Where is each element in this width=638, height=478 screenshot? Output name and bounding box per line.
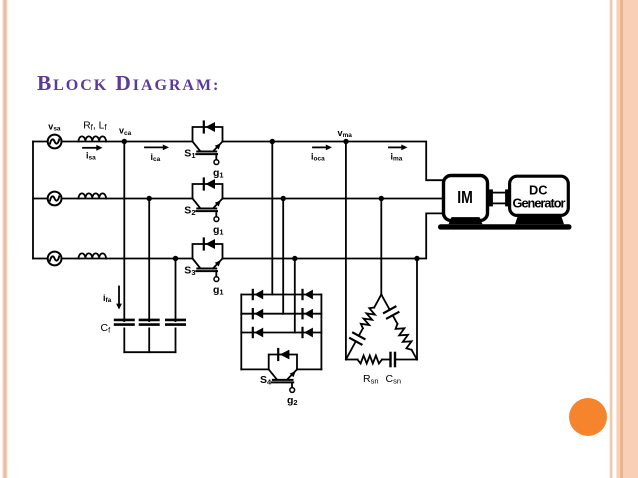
wire: row2 to bridge bbox=[282, 199, 284, 314]
svg-text:g1: g1 bbox=[213, 167, 224, 180]
node row3-filter bbox=[173, 256, 178, 261]
wire: snubber left edge bbox=[345, 142, 347, 360]
capacitor Cf phase a bbox=[115, 320, 133, 352]
svg-text:S2: S2 bbox=[184, 205, 195, 218]
left border stripe bbox=[2, 0, 8, 478]
svg-text:ifa: ifa bbox=[103, 293, 112, 304]
orange circle decoration bbox=[569, 398, 607, 436]
wire: row1 to bridge bbox=[271, 142, 273, 295]
svg-text:IM: IM bbox=[457, 187, 473, 207]
arrow ima bbox=[389, 146, 402, 148]
IGBT switch S3 with antiparallel diode bbox=[193, 239, 223, 282]
wire: bridge row 3 bbox=[241, 332, 321, 334]
svg-text:Rf, Lf: Rf, Lf bbox=[83, 121, 107, 133]
induction motor IM bbox=[444, 176, 488, 221]
slide title bbox=[37, 71, 220, 96]
wire: snubber middle drop bbox=[380, 199, 382, 295]
right border band bbox=[616, 0, 638, 478]
svg-text:S3: S3 bbox=[184, 265, 195, 278]
wire: phase b row bbox=[33, 198, 193, 200]
inductor filter phase c bbox=[79, 253, 107, 258]
svg-text:g1: g1 bbox=[213, 224, 224, 237]
svg-text:ima: ima bbox=[391, 152, 403, 163]
svg-text:S4: S4 bbox=[260, 374, 272, 387]
wire: bridge left edge bbox=[240, 295, 242, 370]
svg-text:Generator: Generator bbox=[513, 196, 566, 211]
node row3-snubber bbox=[414, 256, 419, 261]
node row1-bridge bbox=[270, 139, 275, 144]
svg-text:g1: g1 bbox=[213, 284, 224, 297]
wire: bridge bottom right bbox=[297, 368, 321, 370]
wire: phase c row right of S3 bbox=[223, 213, 444, 258]
node row2-filter bbox=[147, 196, 152, 201]
svg-text:Rsn: Rsn bbox=[363, 373, 379, 386]
wire: phase a row right of S1 bbox=[223, 142, 444, 181]
diode D1 bbox=[253, 290, 263, 300]
svg-text:S1: S1 bbox=[184, 148, 195, 161]
diode D4 bbox=[303, 309, 313, 319]
arrow ioca bbox=[313, 146, 327, 148]
wire: phase c row bbox=[33, 258, 193, 260]
diode D2 bbox=[303, 290, 313, 300]
arrow ica bbox=[145, 146, 164, 148]
AC source vsa bbox=[48, 135, 62, 149]
wire: phase b row right of S2 bbox=[223, 198, 444, 200]
inductor filter phase b bbox=[79, 193, 107, 198]
svg-text:Cf: Cf bbox=[101, 322, 112, 335]
wire: filter branch c down bbox=[175, 259, 177, 322]
wire: bridge row 1 bbox=[241, 294, 321, 296]
capacitor Csn bbox=[382, 353, 417, 366]
wire: bridge bottom left bbox=[241, 368, 268, 370]
resistor Rsn bbox=[346, 356, 382, 364]
svg-text:vca: vca bbox=[119, 126, 132, 137]
wire: filter branch a down bbox=[123, 142, 125, 322]
shaft coupling bbox=[489, 189, 510, 206]
DC generator foot bbox=[515, 215, 564, 224]
AC source vsc bbox=[48, 252, 62, 266]
svg-text:vsa: vsa bbox=[48, 121, 61, 132]
arrow isa bbox=[83, 147, 97, 149]
node row2-bridge bbox=[281, 196, 286, 201]
wire: left vertical bus bbox=[32, 142, 34, 259]
wire: row3 to bridge bbox=[294, 259, 296, 333]
IGBT switch S4 with antiparallel diode bbox=[269, 349, 297, 392]
node row1-snubber (vma) bbox=[343, 139, 348, 144]
wire: bridge row 2 bbox=[241, 313, 321, 315]
wire: capacitor bank bottom bbox=[124, 351, 175, 353]
IGBT switch S1 with antiparallel diode bbox=[193, 122, 223, 165]
capacitor snubber right diagonal bbox=[381, 295, 398, 324]
IM foot bbox=[449, 217, 483, 224]
right thin stripe bbox=[609, 0, 613, 478]
capacitor Cf phase c bbox=[166, 320, 184, 352]
node row3-bridge bbox=[292, 256, 297, 261]
svg-text:g2: g2 bbox=[287, 395, 298, 408]
wire: phase a row bbox=[33, 141, 193, 143]
capacitor snubber left diagonal bbox=[346, 328, 365, 359]
resistor snubber left diagonal bbox=[361, 295, 382, 329]
diode D5 bbox=[253, 328, 263, 338]
svg-text:isa: isa bbox=[86, 150, 96, 161]
DC generator block bbox=[510, 176, 569, 215]
diode D3 bbox=[253, 309, 263, 319]
wire: bridge right edge bbox=[320, 295, 322, 370]
capacitor Cf phase b bbox=[140, 320, 158, 352]
wire: snubber right edge bbox=[416, 259, 418, 360]
arrow ifa bbox=[116, 287, 122, 310]
wire: filter branch b down bbox=[148, 199, 150, 322]
AC source vsb bbox=[48, 192, 62, 206]
diode D6 bbox=[303, 328, 313, 338]
node vca bbox=[122, 139, 127, 144]
svg-text:Csn: Csn bbox=[386, 373, 402, 386]
inductor Rf Lf phase a bbox=[79, 136, 107, 141]
node row2-snubber bbox=[379, 196, 384, 201]
machine base bar bbox=[438, 224, 572, 229]
svg-text:ica: ica bbox=[151, 152, 161, 163]
svg-text:vma: vma bbox=[338, 128, 353, 139]
IGBT switch S2 with antiparallel diode bbox=[193, 179, 223, 222]
svg-text:ioca: ioca bbox=[311, 152, 325, 163]
resistor snubber right diagonal bbox=[396, 324, 417, 360]
